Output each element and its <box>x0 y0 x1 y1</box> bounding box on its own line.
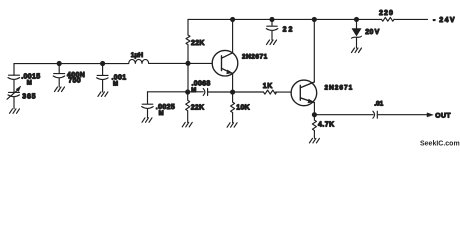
svg-text:-: - <box>433 17 436 24</box>
resistor 22K upper <box>186 19 190 63</box>
ground <box>98 92 108 97</box>
resistor 10K <box>231 92 235 123</box>
ground <box>55 87 65 92</box>
capacitor .0025 M <box>142 92 154 118</box>
node junction dot A2 <box>101 62 105 66</box>
capacitor .0068 M <box>203 89 207 96</box>
inductor 1uH <box>129 59 149 63</box>
wire output line <box>314 114 427 116</box>
ground <box>352 48 362 53</box>
svg-text:SeekIC.com: SeekIC.com <box>420 141 460 148</box>
capacitor 22 <box>266 19 278 40</box>
svg-text:20 V: 20 V <box>365 29 379 36</box>
svg-text:1K: 1K <box>263 83 273 90</box>
node junction dot A1 <box>57 62 61 66</box>
resistor 4.7K <box>312 115 316 139</box>
wire base line <box>148 91 292 93</box>
wire main input line <box>14 62 212 64</box>
transistor Q2 2N2671 <box>291 80 317 106</box>
ground <box>182 122 192 127</box>
ground <box>267 40 277 45</box>
ground <box>142 118 152 123</box>
resistor 22K lower <box>186 92 190 122</box>
capacitor .01 <box>373 111 377 118</box>
capacitor .0015 M <box>8 75 20 92</box>
node junction dot B2 <box>231 90 235 94</box>
svg-text:.0068: .0068 <box>192 81 211 88</box>
node OUT arrow <box>427 113 433 117</box>
svg-text:2N2671: 2N2671 <box>325 85 354 92</box>
wire top rail <box>188 18 428 20</box>
svg-text:4.7K: 4.7K <box>318 122 335 129</box>
svg-text:M: M <box>27 81 32 87</box>
svg-text:M: M <box>159 111 164 117</box>
svg-text:.0025: .0025 <box>156 104 175 111</box>
svg-text:.001: .001 <box>112 74 127 81</box>
svg-text:22: 22 <box>283 27 295 34</box>
svg-text:365: 365 <box>22 94 36 101</box>
svg-text:M: M <box>191 88 196 94</box>
svg-text:750: 750 <box>68 78 81 85</box>
svg-text:2N2671: 2N2671 <box>242 54 268 61</box>
svg-text:24V: 24V <box>439 17 456 24</box>
svg-text:22K: 22K <box>191 104 205 111</box>
variable capacitor 365 <box>8 92 20 108</box>
ground <box>227 123 237 128</box>
svg-text:22K: 22K <box>191 40 205 47</box>
capacitor .001 M <box>97 64 109 92</box>
svg-text:1μH: 1μH <box>131 52 144 59</box>
wire base bias vertical <box>187 63 189 92</box>
ground <box>10 109 20 114</box>
resistor 220 <box>382 17 395 21</box>
resistor 1K <box>264 90 277 94</box>
node junction dot B1 <box>186 90 190 94</box>
svg-text:.01: .01 <box>374 101 383 108</box>
svg-text:OUT: OUT <box>435 113 451 120</box>
svg-text:10K: 10K <box>236 104 250 111</box>
zener diode 20V <box>355 17 359 21</box>
node junction dot A3 <box>186 61 190 65</box>
ground <box>309 138 319 143</box>
node junction dot emitter <box>312 113 316 117</box>
node input corner <box>13 64 15 76</box>
svg-text:220: 220 <box>379 10 394 17</box>
node junction dot rail C22 <box>270 17 274 21</box>
svg-text:M: M <box>113 81 118 87</box>
capacitor 400N 750 <box>53 64 64 88</box>
svg-text:.0015: .0015 <box>21 74 40 81</box>
transistor Q1 2N2671 <box>212 50 238 76</box>
